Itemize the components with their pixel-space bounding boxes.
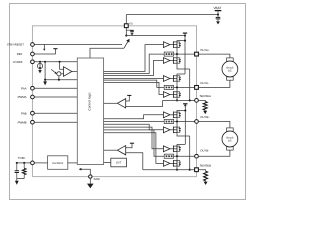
svg-text:GND: GND (94, 177, 100, 181)
wire logic to LS gate B1 (104, 124, 164, 130)
junction DVREF branch corner (44, 79, 46, 81)
wire TOFF internal (34, 162, 47, 164)
wire QA1H drain to rail (177, 40, 185, 43)
wire DVREF (34, 61, 77, 63)
wire U3 ref input (126, 95, 130, 101)
I2 adjust arrow (51, 69, 55, 73)
capacitor C3 (TOFF) (16, 163, 18, 171)
wire comparator U2 upper input (60, 62, 64, 70)
transistor QB1H (high-side NMOS) (170, 114, 173, 116)
svg-text:STBY/RESET: STBY/RESET (7, 44, 24, 47)
driver buffer A2 high-side (163, 76, 170, 82)
wire logic to HS gate A2 (104, 78, 164, 80)
svg-text:OUTA-: OUTA- (200, 81, 209, 85)
pin PWMA (31, 95, 35, 99)
transistor QA1H (high-side NMOS) (170, 44, 173, 46)
monitor block A1 (164, 52, 173, 56)
internal supply tap bar (183, 32, 187, 34)
wire OUT A2 (174, 86, 195, 88)
svg-text:OUTB+: OUTB+ (200, 115, 210, 119)
wire U4 ref input (126, 143, 132, 148)
junction VBAT (217, 14, 219, 16)
wire half-bridge B2 midpoint (176, 152, 178, 160)
transistor QA1L (low-side NMOS) (170, 60, 173, 62)
transistor QB2H (high-side NMOS) (170, 148, 173, 150)
ground (TOFF) (16, 179, 18, 181)
svg-text:OVT: OVT (116, 162, 122, 165)
outer frame (10, 4, 246, 200)
REF tap bar (53, 48, 57, 50)
monitor block B1 (164, 119, 173, 123)
wire SENSEA internal (163, 99, 195, 101)
wire logic to LS gate A2 (104, 82, 164, 94)
svg-text:PWMA: PWMA (18, 95, 27, 99)
wire logic to OVT (104, 161, 111, 163)
op-amp U4 (current comparator B) (117, 146, 125, 155)
junction OUT B2 (176, 155, 178, 157)
pin STBY/RESET (31, 43, 35, 47)
resistor R2 (sense A) (203, 102, 207, 110)
svg-text:PWMB: PWMB (18, 120, 27, 124)
wire logic to HS gate B2 (104, 127, 164, 149)
wire QA1L source to sense rail (177, 64, 190, 69)
junction rail B top (184, 104, 186, 106)
pin OUTB+ (195, 120, 199, 124)
oscillator block (48, 156, 68, 170)
wire I2 bottom (58, 76, 60, 80)
wire supply rail A (184, 36, 186, 74)
wire logic to monitor A2 (104, 80, 165, 87)
wire OUTA+ to motor A (198, 54, 230, 58)
ground (DVREF branch) (44, 80, 46, 82)
motor M1 terminal bottom (227, 77, 234, 80)
wire OUTB- to motor B (198, 150, 230, 156)
driver buffer B2 low-side (163, 161, 170, 167)
junction TOFF a (16, 162, 18, 164)
junction DVREF b (44, 61, 46, 63)
wire U2 output (72, 71, 78, 73)
pin TOFF (31, 161, 35, 165)
wire STBY/RESET (34, 44, 122, 46)
ground (I1) (39, 69, 41, 70)
ground (R2) (204, 109, 206, 112)
svg-text:SENSEB: SENSEB (200, 163, 211, 167)
monitor block A2 (164, 85, 173, 89)
pin PhB (31, 111, 35, 115)
pin SENSEB (195, 168, 199, 172)
driver buffer B2 high-side (163, 146, 170, 152)
wire VS pin up (125, 15, 127, 24)
pin OUTA- (195, 86, 199, 90)
wire DVREF branch down (45, 62, 77, 80)
svg-text:SENSEA: SENSEA (200, 94, 211, 98)
junction sense rail A (189, 99, 191, 101)
motor M1 terminal top (227, 58, 234, 61)
resistor R3 (sense B) (204, 171, 208, 181)
motor M2 (Brush DC) (222, 131, 238, 147)
IC boundary box (32, 26, 196, 177)
transistor QA2H (high-side NMOS) (170, 78, 173, 80)
wire PWMB (34, 121, 77, 123)
capacitor C2 (VS bypass) (126, 29, 132, 31)
svg-text:Oscillator: Oscillator (52, 162, 65, 165)
motor M1 (Brush DC) (222, 61, 238, 77)
wire PhB (34, 112, 77, 114)
wire OUT B1 (174, 121, 195, 123)
OVT block (111, 158, 127, 167)
pin OUTB- (195, 154, 199, 158)
ground (R3) (205, 180, 207, 183)
wire comparator U4 sense input (126, 153, 143, 170)
wire logic to HS gate B1 (104, 115, 164, 119)
pin DVREF (31, 60, 35, 64)
wire half-bridge B1 midpoint (176, 118, 178, 126)
junction sense rail B (189, 169, 191, 171)
svg-text:DC: DC (228, 70, 232, 73)
wire logic to monitor B2 (104, 130, 165, 156)
wire logic to HS gate A1 (104, 45, 164, 72)
svg-text:REF: REF (17, 53, 23, 56)
wire I2 to comparator (61, 73, 64, 75)
wire OUTB+ to motor B (198, 122, 230, 128)
wire QB1H drain to rail (177, 111, 185, 112)
VBAT supply bar (215, 10, 222, 12)
junction QB2L source (176, 169, 178, 171)
junction OUT B1 (176, 120, 178, 122)
transistor QB1L (low-side NMOS) (170, 129, 173, 131)
pin PhA (31, 86, 35, 90)
op-amp U2 (DVREF comparator) (64, 67, 72, 77)
junction I2 bottom (58, 79, 60, 81)
svg-text:OUTA+: OUTA+ (200, 48, 210, 52)
U3 ref bar (127, 94, 131, 96)
wire REF (34, 49, 55, 54)
wire QB2H drain to rail (177, 145, 185, 146)
wire PhA (34, 87, 77, 89)
wire QA2L source (176, 98, 178, 101)
wire logic to monitor B1 (104, 121, 165, 123)
wire QB1L source to sense rail (177, 133, 190, 136)
wire SENSEB internal (143, 169, 195, 171)
switch blade to supply (124, 42, 128, 49)
op-amp U3 (current comparator A) (117, 99, 125, 108)
svg-text:DC: DC (228, 140, 232, 143)
wire supply rail B (184, 106, 186, 145)
svg-text:PhA: PhA (21, 86, 27, 90)
driver buffer A1 low-side (163, 58, 170, 64)
junction DVREF c (59, 61, 61, 63)
resistor R1 (TOFF) (23, 163, 25, 168)
capacitor C1 (VBAT bypass) (217, 15, 219, 18)
wire comparator U3 sense input (126, 100, 163, 106)
ground (VBAT cap) (217, 20, 219, 23)
U4 ref bar (130, 142, 134, 144)
wire GND internal (80, 169, 90, 175)
svg-text:TOFF: TOFF (18, 156, 26, 160)
driver buffer A2 low-side (163, 92, 170, 98)
junction VS internal (125, 35, 127, 37)
wire PWMA (34, 96, 77, 98)
wire SENSEB to R3 (198, 170, 205, 172)
wire U4 output (104, 149, 118, 151)
wire half-bridge A2 midpoint (176, 82, 178, 91)
wire GND external (89, 178, 91, 182)
pin REF (31, 52, 35, 56)
motor M2 terminal top (227, 128, 234, 131)
wire QA2H drain to rail (177, 74, 185, 75)
control logic block (77, 58, 103, 165)
wire TOFF RC join (17, 178, 24, 180)
driver buffer A1 high-side (163, 42, 170, 48)
junction TOFF b (23, 162, 25, 164)
pin PWMB (31, 120, 35, 124)
wire enable switch (90, 48, 124, 58)
pull-down arrow on STBY (43, 45, 45, 49)
junction supply rail top (184, 35, 186, 37)
wire U3 output (104, 102, 118, 104)
monitor block B2 (164, 154, 173, 158)
wire sense rail A (189, 69, 191, 100)
junction DVREF a (39, 61, 41, 63)
pin GND (89, 175, 92, 178)
svg-text:DVREF: DVREF (13, 61, 23, 64)
junction rail B1 (184, 109, 186, 111)
wire OUTA- to motor A (198, 80, 230, 87)
wire oscillator to logic (68, 162, 78, 164)
wire OUT A1 (174, 53, 195, 55)
pin OUTA+ (195, 52, 199, 56)
driver buffer B1 high-side (163, 112, 170, 118)
svg-text:PhB: PhB (21, 111, 27, 115)
supply tap bar B (183, 103, 187, 105)
wire OUT B2 (174, 155, 195, 157)
junction rail A1 (184, 40, 186, 42)
junction OUT A1 (176, 53, 178, 55)
motor M2 terminal bottom (227, 147, 234, 150)
junction QA2L source (176, 99, 178, 101)
wire TOFF external (17, 162, 31, 164)
pin VS (124, 24, 128, 28)
wire VS pin down to internal node (125, 28, 127, 36)
wire SENSEA to R2 (198, 100, 205, 101)
wire VBAT to VS pin (126, 14, 218, 16)
current source I1 (DVREF pull-down) (39, 62, 41, 64)
GND internal arrow (79, 168, 82, 171)
wire QB2L source (176, 167, 178, 170)
transistor QB2L (low-side NMOS) (170, 162, 173, 164)
ground (GND pin) (89, 183, 91, 184)
variable source I2 (57, 72, 61, 76)
ground (VS cap) (131, 32, 133, 35)
pin SENSEA (195, 99, 199, 103)
wire half-bridge A1 midpoint (176, 48, 178, 57)
wire internal supply to bridges (126, 35, 185, 37)
junction OUT A2 (176, 86, 178, 88)
wire logic to LS gate B2 (104, 133, 164, 164)
wire logic to monitor A1 (104, 54, 165, 73)
svg-text:Control logic: Control logic (87, 92, 91, 111)
wire sense rail B (189, 136, 191, 170)
wire logic to LS gate A1 (104, 61, 164, 76)
driver buffer B1 low-side (163, 127, 170, 133)
svg-text:VBAT: VBAT (213, 6, 221, 10)
svg-text:VS: VS (129, 22, 133, 25)
transistor QA2L (low-side NMOS) (170, 94, 173, 96)
svg-text:OUTB-: OUTB- (200, 148, 209, 152)
